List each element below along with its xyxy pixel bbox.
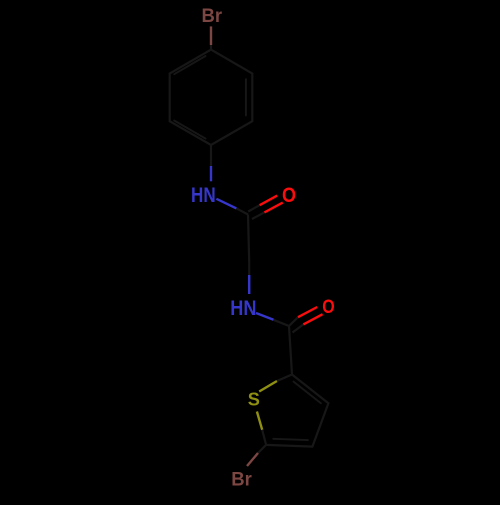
S label [248, 390, 260, 410]
bond C(ring bottom)-N1 nitrogen half [210, 166, 212, 181]
bond C2-N2 carbon half [248, 262, 250, 275]
carbonyl C3=O2 double bond carbon halves [289, 317, 303, 332]
bond C2-N2 nitrogen half [248, 275, 250, 294]
bond S-C7a sulfur half [257, 412, 262, 430]
bond N1-C1 nitrogen half [216, 199, 236, 209]
svg-text:HN: HN [191, 183, 216, 207]
svg-text:Br: Br [202, 6, 223, 28]
bond C3-C4a (thiophene C2) carbon [289, 326, 292, 375]
thiophene ring carbon bonds [266, 375, 328, 447]
carbonyl C3=O2 double bond oxygen halves [298, 307, 323, 324]
bond S-C4a carbon half [277, 375, 292, 382]
bond S-C4a sulfur half [259, 381, 277, 392]
svg-text:Br: Br [231, 469, 252, 491]
carbonyl C1=O1 double bond oxygen halves [260, 196, 283, 213]
HN1 amide label [191, 183, 216, 207]
bond N2-C3 nitrogen half [256, 313, 274, 320]
bond S-C7a carbon half [262, 430, 266, 445]
O1 label [282, 184, 296, 208]
bond C7a-Br2 carbon half [258, 445, 266, 453]
bond C(ring bottom)-N1 carbon half [210, 145, 212, 166]
bond C1-C2 alpha carbon [248, 215, 249, 263]
HN2 amide label [230, 297, 256, 321]
svg-text:O: O [282, 184, 296, 208]
Br label bottom [231, 469, 252, 491]
Br label top [202, 6, 223, 28]
O2 label [322, 295, 335, 317]
bond N2-C3 carbon half [274, 320, 290, 326]
bond C(ring top)-Br1 bromine half [210, 26, 212, 45]
bond N1-C1 carbon half [236, 208, 248, 214]
bond C7a-Br2 bromine half [247, 453, 258, 466]
svg-text:S: S [248, 390, 260, 410]
carbonyl C1=O1 double bond carbon halves [248, 205, 264, 219]
svg-text:HN: HN [230, 297, 256, 321]
benzene ring C1a-C6a (4-bromophenyl), dark carbon bonds [170, 50, 253, 145]
svg-text:O: O [322, 295, 335, 317]
bond C(ring top)-Br1 carbon half [210, 45, 212, 50]
